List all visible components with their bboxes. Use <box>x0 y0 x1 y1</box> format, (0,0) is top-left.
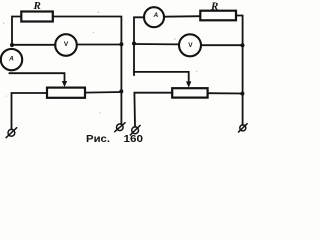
wire: ammeter bottom to rheostat wiper (left circuit) <box>10 73 65 82</box>
ammeter A (right circuit) <box>144 7 164 27</box>
rheostat box (right circuit) <box>172 88 207 97</box>
voltmeter V (left circuit) <box>55 34 77 56</box>
paper specks <box>3 12 197 114</box>
node: junction dot on right vertical (left circuit, V row) <box>119 42 123 46</box>
wire: node to voltmeter (left circuit) <box>12 44 55 46</box>
wire: rheostat left to bottom-left terminal (right circuit) <box>134 93 172 127</box>
voltmeter V (right circuit) <box>179 34 201 56</box>
terminal: right circuit, left <box>132 127 139 134</box>
wire: ammeter to resistor (right circuit) <box>164 15 200 18</box>
wire: left vertical to rheostat wiper (right circuit) <box>134 72 189 83</box>
wire: left circuit top-left corner <box>12 17 21 47</box>
resistor R (left circuit) <box>21 12 53 22</box>
node: junction dot left vertical (right circuit, V row) <box>132 42 136 46</box>
wiper arrowhead (right circuit) <box>186 81 191 87</box>
wire: voltmeter to right vertical (right circuit) <box>201 44 243 46</box>
ammeter A (left circuit) <box>1 49 22 70</box>
terminal: left circuit, right <box>117 124 124 131</box>
wire: rheostat right to right vertical (left circuit) <box>85 91 121 94</box>
wire: node to voltmeter (right circuit) <box>134 43 179 45</box>
wire: voltmeter to right vertical (left circuit) <box>77 44 122 46</box>
node: junction dot on right vertical (left circuit, rheostat row) <box>119 89 123 93</box>
rheostat box (left circuit) <box>47 88 85 98</box>
wire: rheostat right to right vertical (right circuit) <box>208 92 243 94</box>
wire: left circuit top run and right vertical <box>53 17 122 124</box>
svg-text:R: R <box>33 0 41 12</box>
wire: resistor to right vertical (right circuit) <box>236 16 243 125</box>
terminal: left circuit, left <box>8 129 15 136</box>
terminal: right circuit, right <box>240 125 246 131</box>
node: junction dot on right vertical (right circuit, rheostat row) <box>240 92 244 96</box>
wire: rheostat left to bottom-left terminal (left circuit) <box>12 93 48 129</box>
svg-text:R: R <box>210 0 218 12</box>
svg-text:V: V <box>64 41 69 48</box>
svg-text:V: V <box>188 42 193 49</box>
svg-text:A: A <box>153 12 159 19</box>
node: junction dot on right vertical (right circuit, V row) <box>241 43 245 47</box>
svg-text:160: 160 <box>124 133 144 144</box>
wiper arrowhead (left circuit) <box>62 81 67 87</box>
svg-text:A: A <box>8 55 14 62</box>
wire: right circuit left vertical and stub to ammeter <box>134 17 144 75</box>
resistor R (right circuit) <box>200 11 236 21</box>
node: junction dot left <box>10 43 14 47</box>
svg-text:Рис.: Рис. <box>86 133 110 144</box>
